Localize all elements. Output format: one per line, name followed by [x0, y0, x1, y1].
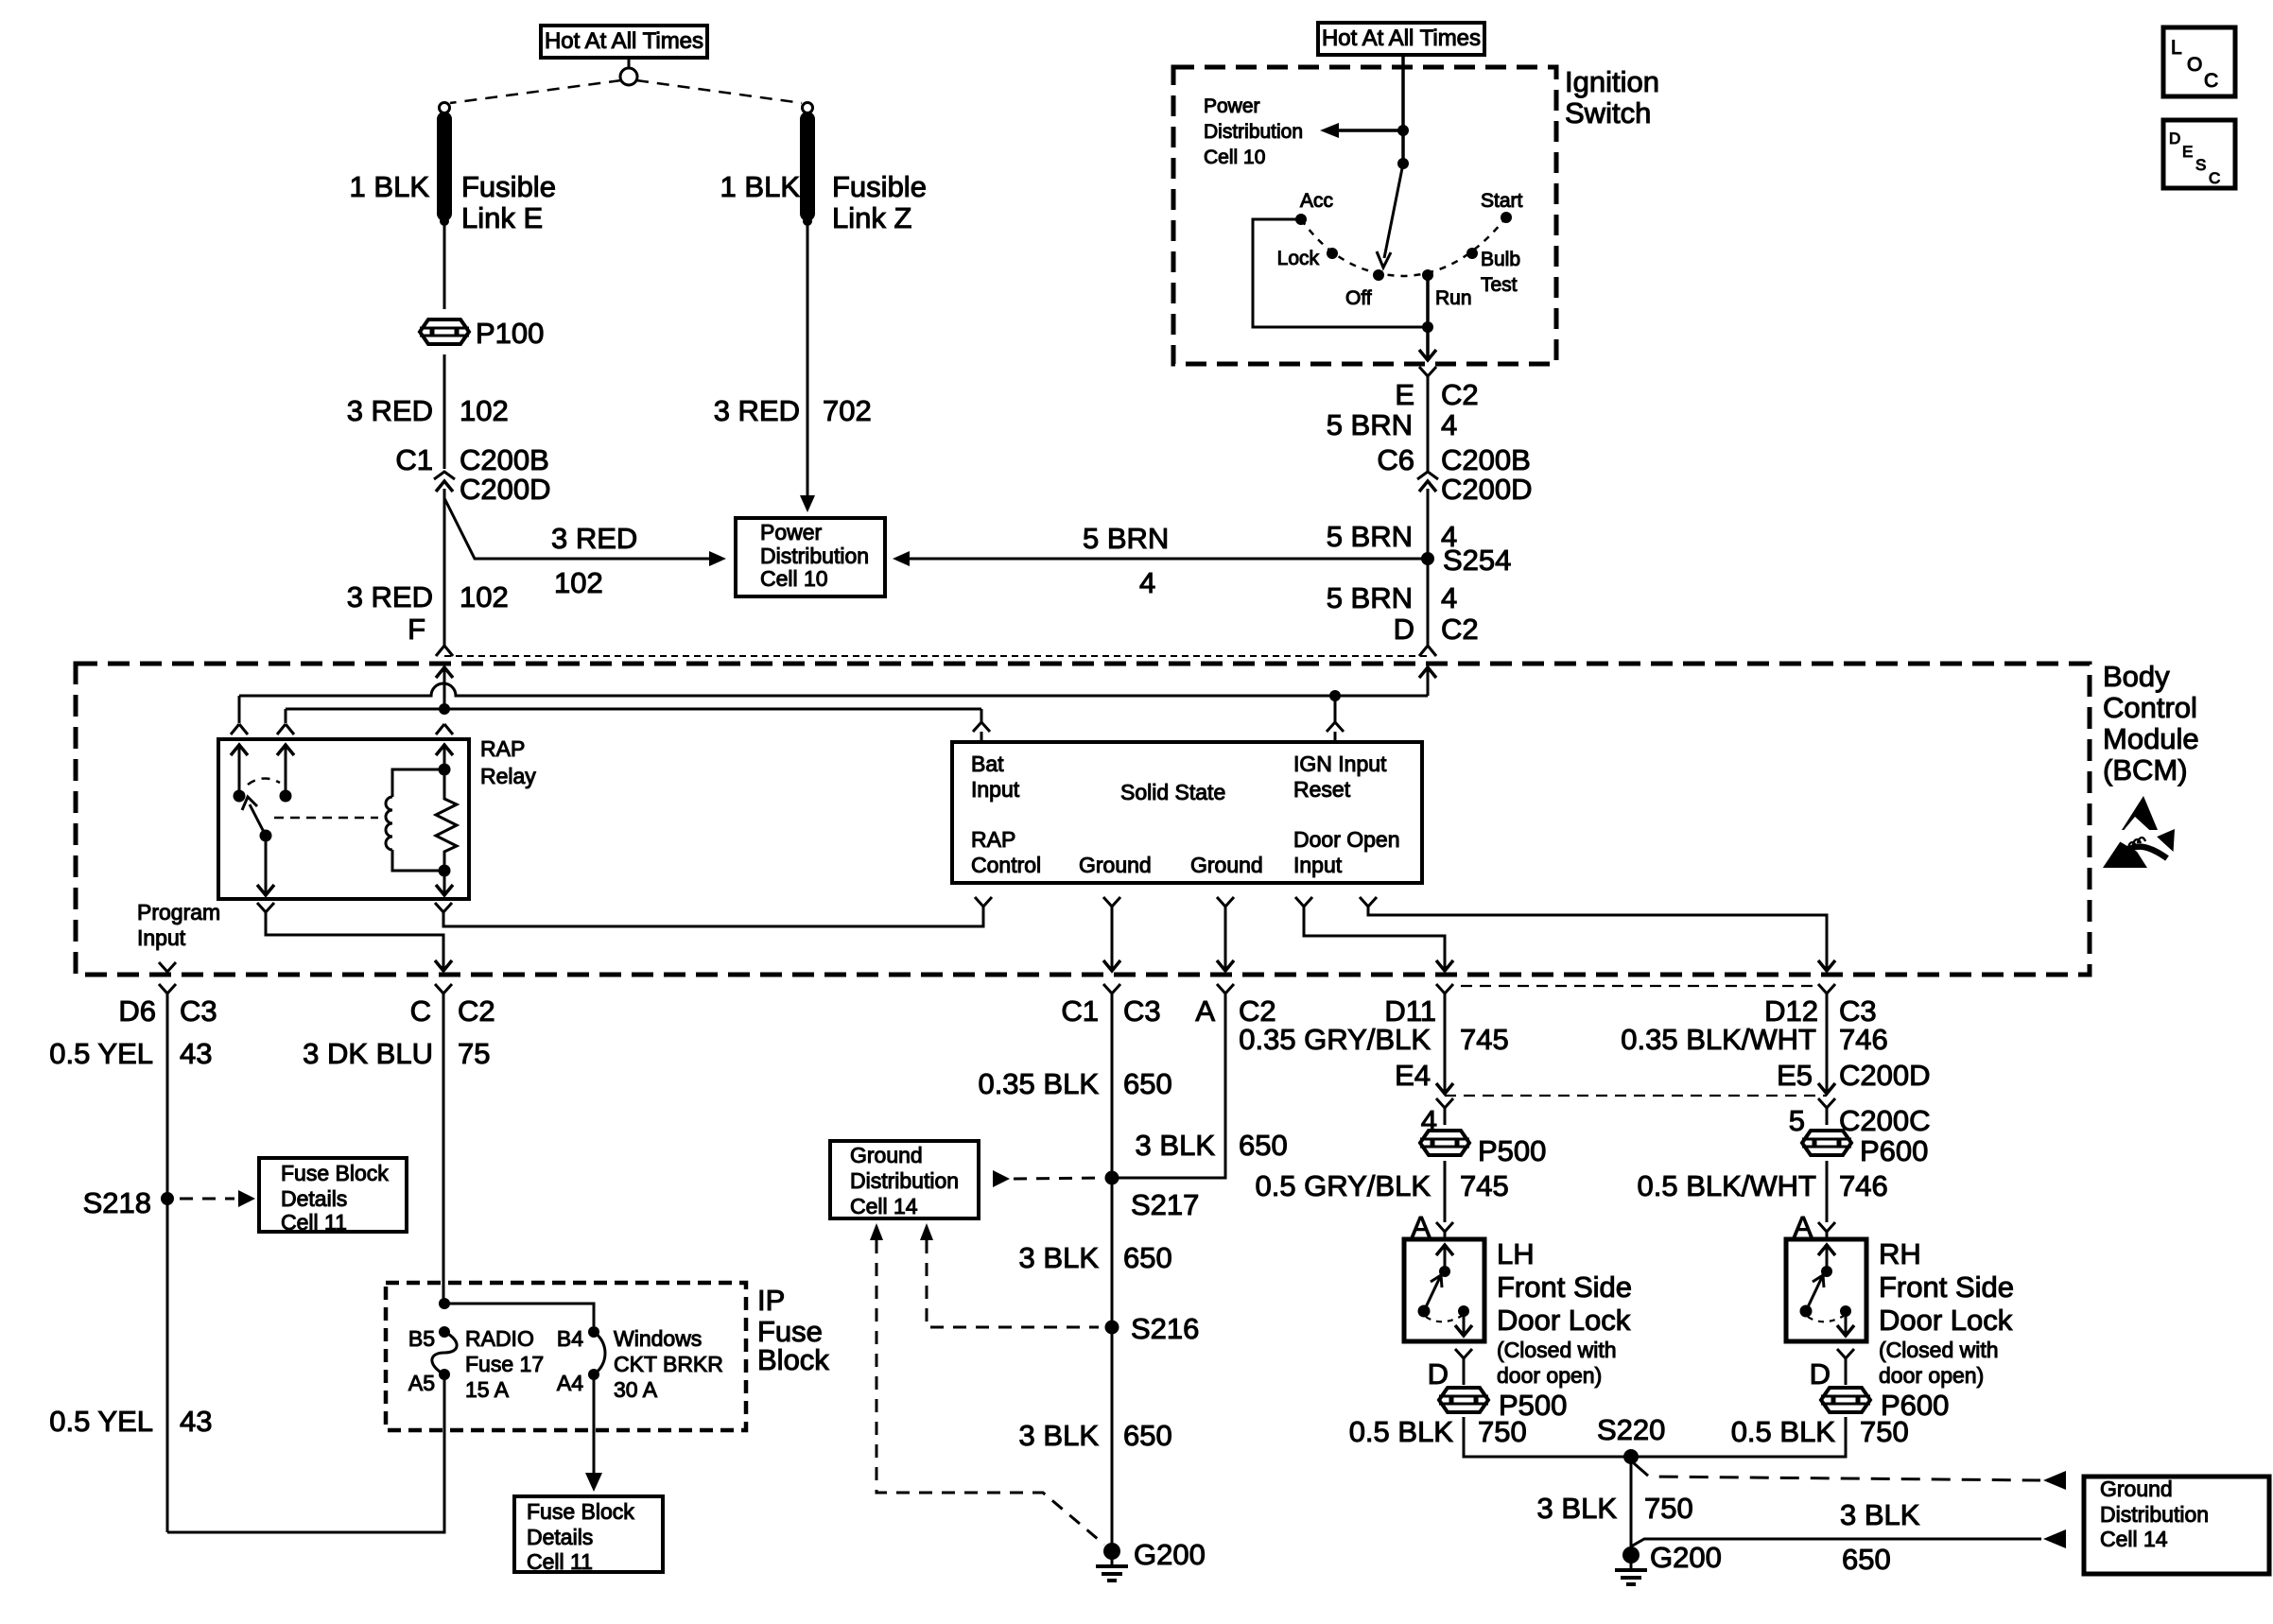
Body Control Module dashed box: [76, 664, 2090, 975]
svg-text:door open): door open): [1497, 1363, 1602, 1388]
svg-text:Fusible: Fusible: [832, 170, 927, 203]
BCM connector crossing for F wire: [436, 646, 453, 656]
terminal ring of fusible link Z: [803, 103, 813, 113]
svg-text:C: C: [2209, 169, 2220, 187]
svg-text:745: 745: [1460, 1169, 1509, 1202]
Solid State box: [952, 742, 1422, 883]
svg-text:0.5 YEL: 0.5 YEL: [49, 1037, 153, 1070]
svg-text:Bat: Bat: [971, 752, 1004, 776]
battery feed line inside BCM (to RAP relay, coil and Bat Input): [286, 708, 981, 711]
LH Front Side Door Lock switch box: [1404, 1239, 1484, 1341]
svg-text:650: 650: [1842, 1543, 1891, 1576]
connector P600 (pass through): [1802, 1131, 1851, 1155]
svg-text:3 BLK: 3 BLK: [1019, 1419, 1100, 1452]
wire to P500: [1444, 1112, 1447, 1125]
wire: relay coil to RAP Control: [443, 907, 983, 926]
relay pin 4 (coil return): [443, 871, 446, 892]
svg-text:Solid State: Solid State: [1120, 780, 1225, 804]
svg-text:(Closed with: (Closed with: [1879, 1338, 1999, 1362]
thin dashed connector line across BCM top (C200D): [444, 655, 1428, 657]
thin dashed connector line C200D (bottom): [1445, 1095, 1827, 1097]
relay coil: [439, 764, 451, 776]
svg-text:A5: A5: [408, 1371, 435, 1395]
svg-text:0.5 BLK: 0.5 BLK: [1349, 1415, 1454, 1448]
wire: 5 BRN 4 to S254: [1427, 489, 1430, 617]
LH dashed throw arc: [1426, 1316, 1462, 1322]
wire: 0.35 BLK 650: [1111, 999, 1114, 1551]
svg-text:C2: C2: [1441, 613, 1479, 646]
contact: Bulb Test: [1466, 248, 1478, 259]
splice S218: [161, 1192, 174, 1205]
svg-text:D: D: [1428, 1357, 1449, 1391]
svg-text:650: 650: [1239, 1129, 1288, 1162]
relay contact 2: [280, 790, 292, 803]
ignition feed line inside BCM (to RAP relay and IGN Input Reset): [239, 683, 1428, 696]
box: Fuse Block Details Cell 11 (windows): [514, 1496, 663, 1572]
splice S220: [1623, 1449, 1639, 1464]
svg-text:Fusible: Fusible: [461, 170, 556, 203]
connector P600 (lower): [1845, 1364, 1848, 1385]
Ground pin 2: [1217, 897, 1234, 909]
svg-text:3 BLK: 3 BLK: [1840, 1498, 1920, 1531]
wire: Door Open 2 to BCM border (D12): [1368, 907, 1827, 960]
svg-text:745: 745: [1460, 1023, 1509, 1056]
svg-text:Details: Details: [527, 1525, 593, 1549]
relay pin 2 crossing: [277, 724, 294, 734]
wire to P600: [1826, 1112, 1829, 1125]
svg-text:Ground: Ground: [1079, 853, 1152, 877]
splice S217: [1105, 1171, 1119, 1185]
connector P500 (lower): [1463, 1364, 1466, 1385]
svg-text:Cell 10: Cell 10: [1204, 147, 1265, 168]
LOC reference box: [2163, 27, 2235, 96]
svg-text:15 A: 15 A: [465, 1377, 510, 1402]
svg-text:C200B: C200B: [1441, 443, 1531, 476]
RAP Relay box: [218, 739, 469, 899]
RH door lock pin D: [1837, 1349, 1854, 1366]
svg-text:Fuse Block: Fuse Block: [281, 1161, 389, 1185]
wire: fusible link E to P100: [443, 221, 446, 309]
wire: feed to circuit breaker B4: [444, 1304, 594, 1326]
svg-text:(BCM): (BCM): [2103, 753, 2188, 786]
svg-text:702: 702: [823, 394, 872, 427]
wire: 0.35 GRY/BLK 745: [1444, 999, 1447, 1083]
svg-text:Link E: Link E: [461, 201, 543, 234]
svg-text:(Closed with: (Closed with: [1497, 1338, 1617, 1362]
wire: fusible link Z to Power Distribution box, 3 RED 702: [807, 221, 809, 495]
wire: dashed feed from Hot At All Times to Fusible Link E: [450, 80, 621, 103]
svg-text:D: D: [1394, 613, 1414, 646]
svg-text:Windows: Windows: [614, 1326, 702, 1351]
wire: 0.5 BLK 750 from RH door lock: [1631, 1417, 1846, 1457]
contact: Run: [1422, 269, 1433, 281]
dashed reference from S220 to Ground Distribution: [1634, 1463, 2040, 1480]
svg-text:0.5 YEL: 0.5 YEL: [49, 1405, 153, 1438]
connector C200D crossing (E5): [1818, 1083, 1835, 1094]
fusible link Z body: [800, 119, 815, 214]
LH door lock pin D: [1455, 1349, 1472, 1366]
svg-text:C200B: C200B: [460, 443, 549, 476]
svg-text:Cell 11: Cell 11: [281, 1210, 347, 1235]
svg-text:Ground: Ground: [850, 1143, 923, 1167]
svg-text:Body: Body: [2103, 660, 2170, 693]
relay pin 4 below box: [435, 903, 452, 918]
IGN Input Reset pin: [1327, 722, 1344, 732]
svg-text:C3: C3: [1123, 994, 1161, 1028]
wire: 3 RED 102 from P100 to C200B: [443, 354, 446, 469]
svg-text:0.35 BLK/WHT: 0.35 BLK/WHT: [1621, 1023, 1816, 1056]
svg-text:Distribution: Distribution: [760, 544, 869, 568]
wire: 0.5 YEL 43 (program input): [166, 999, 169, 1532]
svg-text:Acc: Acc: [1300, 190, 1333, 212]
svg-text:102: 102: [460, 580, 509, 613]
svg-text:Door Lock: Door Lock: [1497, 1304, 1631, 1337]
svg-text:0.5 GRY/BLK: 0.5 GRY/BLK: [1255, 1169, 1431, 1202]
svg-text:E: E: [1395, 378, 1414, 411]
relay contact 1: [234, 790, 246, 803]
svg-text:746: 746: [1839, 1023, 1888, 1056]
ground G200 (left): [1103, 1543, 1120, 1560]
svg-text:Distribution: Distribution: [2100, 1502, 2209, 1527]
svg-text:Input: Input: [1293, 853, 1343, 877]
svg-text:C200C: C200C: [1839, 1104, 1931, 1137]
svg-text:CKT BRKR: CKT BRKR: [614, 1352, 723, 1376]
dashed throw arc between contacts: [248, 778, 280, 785]
wire: 3 RED 102 branch to Power Distribution: [444, 498, 709, 559]
svg-text:P500: P500: [1478, 1134, 1546, 1167]
svg-text:Block: Block: [757, 1343, 829, 1376]
svg-text:1 BLK: 1 BLK: [720, 170, 801, 203]
splice S254: [1421, 552, 1434, 565]
relay movable blade: [260, 830, 272, 842]
svg-text:D: D: [2169, 130, 2180, 147]
svg-text:43: 43: [180, 1405, 212, 1438]
svg-text:0.35 BLK: 0.35 BLK: [978, 1067, 1099, 1100]
label box: Hot At All Times (left): [541, 26, 707, 58]
svg-text:5 BRN: 5 BRN: [1327, 520, 1413, 553]
Windows CKT BRKR 30 A: [588, 1326, 599, 1338]
wire: 0.35 BLK/WHT 746: [1826, 999, 1829, 1083]
svg-text:1 BLK: 1 BLK: [350, 170, 430, 203]
box: Power Distribution Cell 10: [736, 518, 885, 596]
wire: 0.5 GRY/BLK 745 to LH door lock: [1444, 1161, 1447, 1222]
svg-text:Fuse Block: Fuse Block: [527, 1499, 634, 1524]
svg-text:Distribution: Distribution: [1204, 121, 1303, 143]
svg-text:30 A: 30 A: [614, 1377, 658, 1402]
svg-text:75: 75: [458, 1037, 490, 1070]
svg-text:5 BRN: 5 BRN: [1083, 522, 1169, 555]
dashed mechanical link blade to coil: [274, 817, 378, 820]
svg-text:G200: G200: [1134, 1538, 1206, 1571]
svg-text:Lock: Lock: [1277, 248, 1320, 269]
wire: 5 BRN 4 from S254 to Power Distribution: [910, 558, 1428, 561]
svg-text:Fuse 17: Fuse 17: [465, 1352, 544, 1376]
D12 connector below BCM: [1818, 984, 1835, 999]
svg-text:650: 650: [1123, 1067, 1172, 1100]
svg-text:RAP: RAP: [480, 736, 525, 761]
svg-text:O: O: [2187, 54, 2202, 76]
RH switch output contact: [1840, 1305, 1851, 1317]
svg-text:3 BLK: 3 BLK: [1136, 1129, 1216, 1162]
svg-text:Hot At All Times: Hot At All Times: [545, 28, 703, 54]
svg-text:3 RED: 3 RED: [347, 394, 433, 427]
svg-text:Reset: Reset: [1293, 777, 1351, 802]
svg-text:Module: Module: [2103, 722, 2199, 755]
wire: 3 BLK 650 (ground 2) into S217: [1112, 999, 1225, 1178]
svg-text:Front Side: Front Side: [1879, 1270, 2014, 1304]
RH dashed throw arc: [1808, 1316, 1844, 1322]
svg-text:A4: A4: [557, 1371, 583, 1395]
svg-text:Hot At All Times: Hot At All Times: [1322, 26, 1481, 51]
svg-text:Cell 10: Cell 10: [760, 566, 828, 591]
wire: battery feed into ignition switch: [1401, 55, 1405, 164]
svg-text:B5: B5: [408, 1326, 435, 1351]
svg-text:S: S: [2195, 156, 2206, 174]
svg-text:5 BRN: 5 BRN: [1327, 581, 1413, 614]
svg-text:4: 4: [1139, 566, 1155, 599]
svg-text:Input: Input: [971, 777, 1020, 802]
relay pin 1 crossing: [231, 724, 248, 734]
svg-text:C6: C6: [1377, 443, 1414, 476]
svg-text:Ignition: Ignition: [1565, 65, 1659, 98]
Bat Input pin: [973, 722, 990, 732]
svg-text:5 BRN: 5 BRN: [1327, 408, 1413, 441]
svg-text:C200D: C200D: [1839, 1059, 1931, 1092]
relay pin 3 (coil feed) crossing: [436, 724, 453, 734]
svg-text:B4: B4: [557, 1326, 583, 1351]
ignition switch position arc: [1301, 217, 1506, 276]
wire: Ground 1 to BCM border: [1111, 907, 1114, 960]
svg-text:3 DK BLU: 3 DK BLU: [303, 1037, 433, 1070]
svg-text:Off: Off: [1345, 287, 1372, 309]
svg-text:S217: S217: [1131, 1188, 1199, 1221]
svg-text:IGN Input: IGN Input: [1293, 752, 1387, 776]
svg-text:P600: P600: [1860, 1134, 1928, 1167]
svg-text:RAP: RAP: [971, 827, 1015, 852]
splice circle under left Hot At All Times label: [620, 68, 637, 85]
RH Front Side Door Lock switch box: [1786, 1239, 1866, 1341]
LH switch output contact: [1458, 1305, 1469, 1317]
svg-text:S218: S218: [83, 1186, 151, 1219]
svg-text:4: 4: [1441, 408, 1457, 441]
svg-text:Door Open: Door Open: [1293, 827, 1400, 852]
svg-text:3 RED: 3 RED: [551, 522, 637, 555]
svg-text:E5: E5: [1777, 1059, 1813, 1092]
relay blade output to pin C: [265, 836, 268, 892]
junction to IGN Input Reset: [1329, 690, 1341, 701]
DESC reference box: [2163, 120, 2235, 188]
svg-text:Cell 14: Cell 14: [850, 1194, 918, 1218]
RH switch blade: [1800, 1305, 1813, 1318]
fusible link E body: [437, 119, 452, 214]
svg-text:Cell 11: Cell 11: [527, 1549, 593, 1574]
wire: 3 BLK 750 to G200: [1630, 1457, 1633, 1555]
Door Open Input pin 2: [1360, 897, 1377, 909]
wire: 0.5 BLK 750 from LH door lock: [1464, 1417, 1631, 1457]
relay coil suppression resistor: [436, 769, 457, 871]
svg-text:Control: Control: [971, 853, 1041, 877]
svg-text:D: D: [1810, 1357, 1831, 1391]
svg-text:Details: Details: [281, 1186, 347, 1211]
dashed reference to S217: [993, 1170, 1010, 1187]
svg-text:3 BLK: 3 BLK: [1537, 1492, 1618, 1525]
svg-text:C1: C1: [395, 443, 433, 476]
svg-text:0.5 BLK/WHT: 0.5 BLK/WHT: [1638, 1169, 1817, 1202]
svg-text:Control: Control: [2103, 691, 2197, 724]
svg-text:C2: C2: [458, 994, 495, 1028]
svg-text:C1: C1: [1061, 994, 1099, 1028]
contact: Acc: [1295, 214, 1307, 225]
svg-text:L: L: [2171, 37, 2182, 59]
svg-text:Power: Power: [760, 520, 823, 544]
contact: Start: [1501, 212, 1512, 223]
connector P500 (pass through): [1420, 1131, 1469, 1155]
contact: Lock: [1327, 248, 1338, 259]
wire: Acc contact loop: [1253, 219, 1428, 327]
svg-text:Ground: Ground: [1190, 853, 1263, 877]
svg-text:Power: Power: [1204, 95, 1260, 117]
svg-text:door open): door open): [1879, 1363, 1984, 1388]
connector P100: [420, 320, 469, 344]
svg-text:750: 750: [1644, 1492, 1693, 1525]
svg-text:IP: IP: [757, 1284, 785, 1317]
wire: CKT BRKR output to Fuse Block Details: [593, 1374, 596, 1473]
dashed reference line to S216: [920, 1223, 933, 1240]
svg-text:Test: Test: [1481, 274, 1518, 296]
box: Ground Distribution Cell 14 (right): [2084, 1477, 2269, 1574]
wire: Ground 2 to BCM border: [1224, 907, 1227, 960]
svg-text:C200D: C200D: [460, 473, 551, 506]
Door Open Input pin 1: [1295, 897, 1312, 909]
svg-text:A: A: [1195, 994, 1215, 1028]
svg-text:Distribution: Distribution: [850, 1168, 959, 1193]
Ignition Switch dashed box: [1173, 67, 1556, 364]
svg-text:LH: LH: [1497, 1237, 1535, 1270]
wire: 3 BLK 650 to Ground Distribution: [1631, 1539, 2041, 1546]
svg-text:Run: Run: [1435, 287, 1472, 309]
ignition output connector E/C2: [1419, 367, 1436, 382]
svg-text:43: 43: [180, 1037, 212, 1070]
wire: 3 RED 102 below C200D down to BCM pin F: [443, 489, 446, 647]
wire: Run contact output: [1426, 275, 1430, 357]
svg-text:Link Z: Link Z: [832, 201, 911, 234]
RADIO Fuse 17 15 A: [439, 1326, 450, 1338]
dashed reference line to G200: [870, 1223, 883, 1240]
svg-text:Switch: Switch: [1565, 96, 1651, 130]
svg-text:S254: S254: [1443, 544, 1511, 577]
C/C2 connector below BCM: [435, 984, 452, 999]
svg-text:G200: G200: [1650, 1541, 1722, 1574]
svg-text:F: F: [408, 613, 425, 646]
svg-text:650: 650: [1123, 1419, 1172, 1452]
relay pin C below box: [257, 903, 274, 918]
LH switch contact (top): [1439, 1266, 1450, 1277]
svg-text:P100: P100: [476, 317, 544, 350]
svg-text:650: 650: [1123, 1241, 1172, 1274]
svg-text:C2: C2: [1441, 378, 1479, 411]
box: Fuse Block Details Cell 11 (S218): [259, 1158, 407, 1232]
svg-text:Input: Input: [137, 925, 186, 950]
label box: Hot At All Times (right): [1318, 23, 1484, 55]
contact: Off: [1373, 269, 1384, 281]
svg-text:750: 750: [1478, 1415, 1527, 1448]
wire: program input return along bottom: [167, 1374, 444, 1532]
RH switch contact (top): [1821, 1266, 1832, 1277]
svg-text:750: 750: [1860, 1415, 1909, 1448]
ignition switch wiper arm: [1397, 158, 1409, 169]
A/C2 connector below BCM (ground 2): [1217, 984, 1234, 999]
junction at fuse feed: [439, 1298, 450, 1309]
RAP Control pin: [975, 897, 992, 909]
svg-text:Cell 14: Cell 14: [2100, 1527, 2168, 1551]
svg-text:Bulb: Bulb: [1481, 249, 1520, 270]
svg-text:E: E: [2182, 143, 2193, 161]
svg-text:5: 5: [1789, 1104, 1805, 1137]
svg-text:C: C: [410, 994, 431, 1028]
IP Fuse Block dashed box: [386, 1283, 746, 1430]
svg-text:0.35 GRY/BLK: 0.35 GRY/BLK: [1239, 1023, 1431, 1056]
wire: dashed feed from Hot At All Times to Fusible Link Z: [636, 80, 802, 103]
svg-text:Program: Program: [137, 900, 220, 924]
ESD sensitive symbol: [2122, 796, 2158, 830]
arrow to Power Distribution Cell 10 (ignition internal): [1339, 129, 1403, 132]
svg-text:3 RED: 3 RED: [347, 580, 433, 613]
svg-text:E4: E4: [1395, 1059, 1431, 1092]
svg-text:3 RED: 3 RED: [714, 394, 800, 427]
wire: 5 BRN 4 below S254 to BCM pin D: [1427, 559, 1430, 647]
thin dashed line D11-D12: [1461, 985, 1813, 987]
wire: relay switch output to BCM pin C: [266, 918, 443, 960]
svg-text:D6: D6: [118, 994, 156, 1028]
wire: Door Open 1 to BCM border (D11): [1304, 907, 1445, 960]
wire: 0.5 BLK/WHT 746 to RH door lock: [1826, 1161, 1829, 1222]
connector C200D crossing (E4): [1436, 1083, 1453, 1094]
svg-text:0.5 BLK: 0.5 BLK: [1731, 1415, 1836, 1448]
svg-text:Ground: Ground: [2100, 1477, 2173, 1501]
Ground pin 1: [1103, 897, 1120, 909]
terminal ring of fusible link E: [440, 103, 450, 113]
svg-text:3 BLK: 3 BLK: [1019, 1241, 1100, 1274]
svg-text:Start: Start: [1481, 190, 1523, 212]
svg-text:Relay: Relay: [480, 764, 536, 788]
BCM connector crossing for D wire: [1419, 646, 1436, 656]
svg-text:C3: C3: [180, 994, 217, 1028]
svg-text:102: 102: [460, 394, 509, 427]
svg-text:RADIO: RADIO: [465, 1326, 534, 1351]
svg-text:Door Lock: Door Lock: [1879, 1304, 2013, 1337]
svg-text:C200D: C200D: [1441, 473, 1533, 506]
svg-text:Front Side: Front Side: [1497, 1270, 1632, 1304]
svg-text:102: 102: [554, 566, 603, 599]
LH switch blade: [1418, 1305, 1431, 1318]
splice S216: [1105, 1321, 1119, 1335]
ground G200 (right): [1622, 1546, 1640, 1564]
svg-text:4: 4: [1441, 581, 1457, 614]
D11 connector below BCM: [1436, 984, 1453, 999]
svg-text:746: 746: [1839, 1169, 1888, 1202]
C1/C3 connector below BCM (ground 1): [1103, 984, 1120, 999]
box: Ground Distribution Cell 14 (left): [830, 1141, 979, 1218]
svg-text:S220: S220: [1597, 1413, 1665, 1446]
D6/C3 connector below BCM: [159, 984, 176, 999]
svg-text:C: C: [2204, 70, 2218, 92]
svg-text:RH: RH: [1879, 1237, 1921, 1270]
dashed reference to Fuse Block Details: [180, 1198, 234, 1201]
wire: 3 DK BLU 75 to IP fuse block: [442, 999, 445, 1304]
svg-text:S216: S216: [1131, 1312, 1199, 1345]
